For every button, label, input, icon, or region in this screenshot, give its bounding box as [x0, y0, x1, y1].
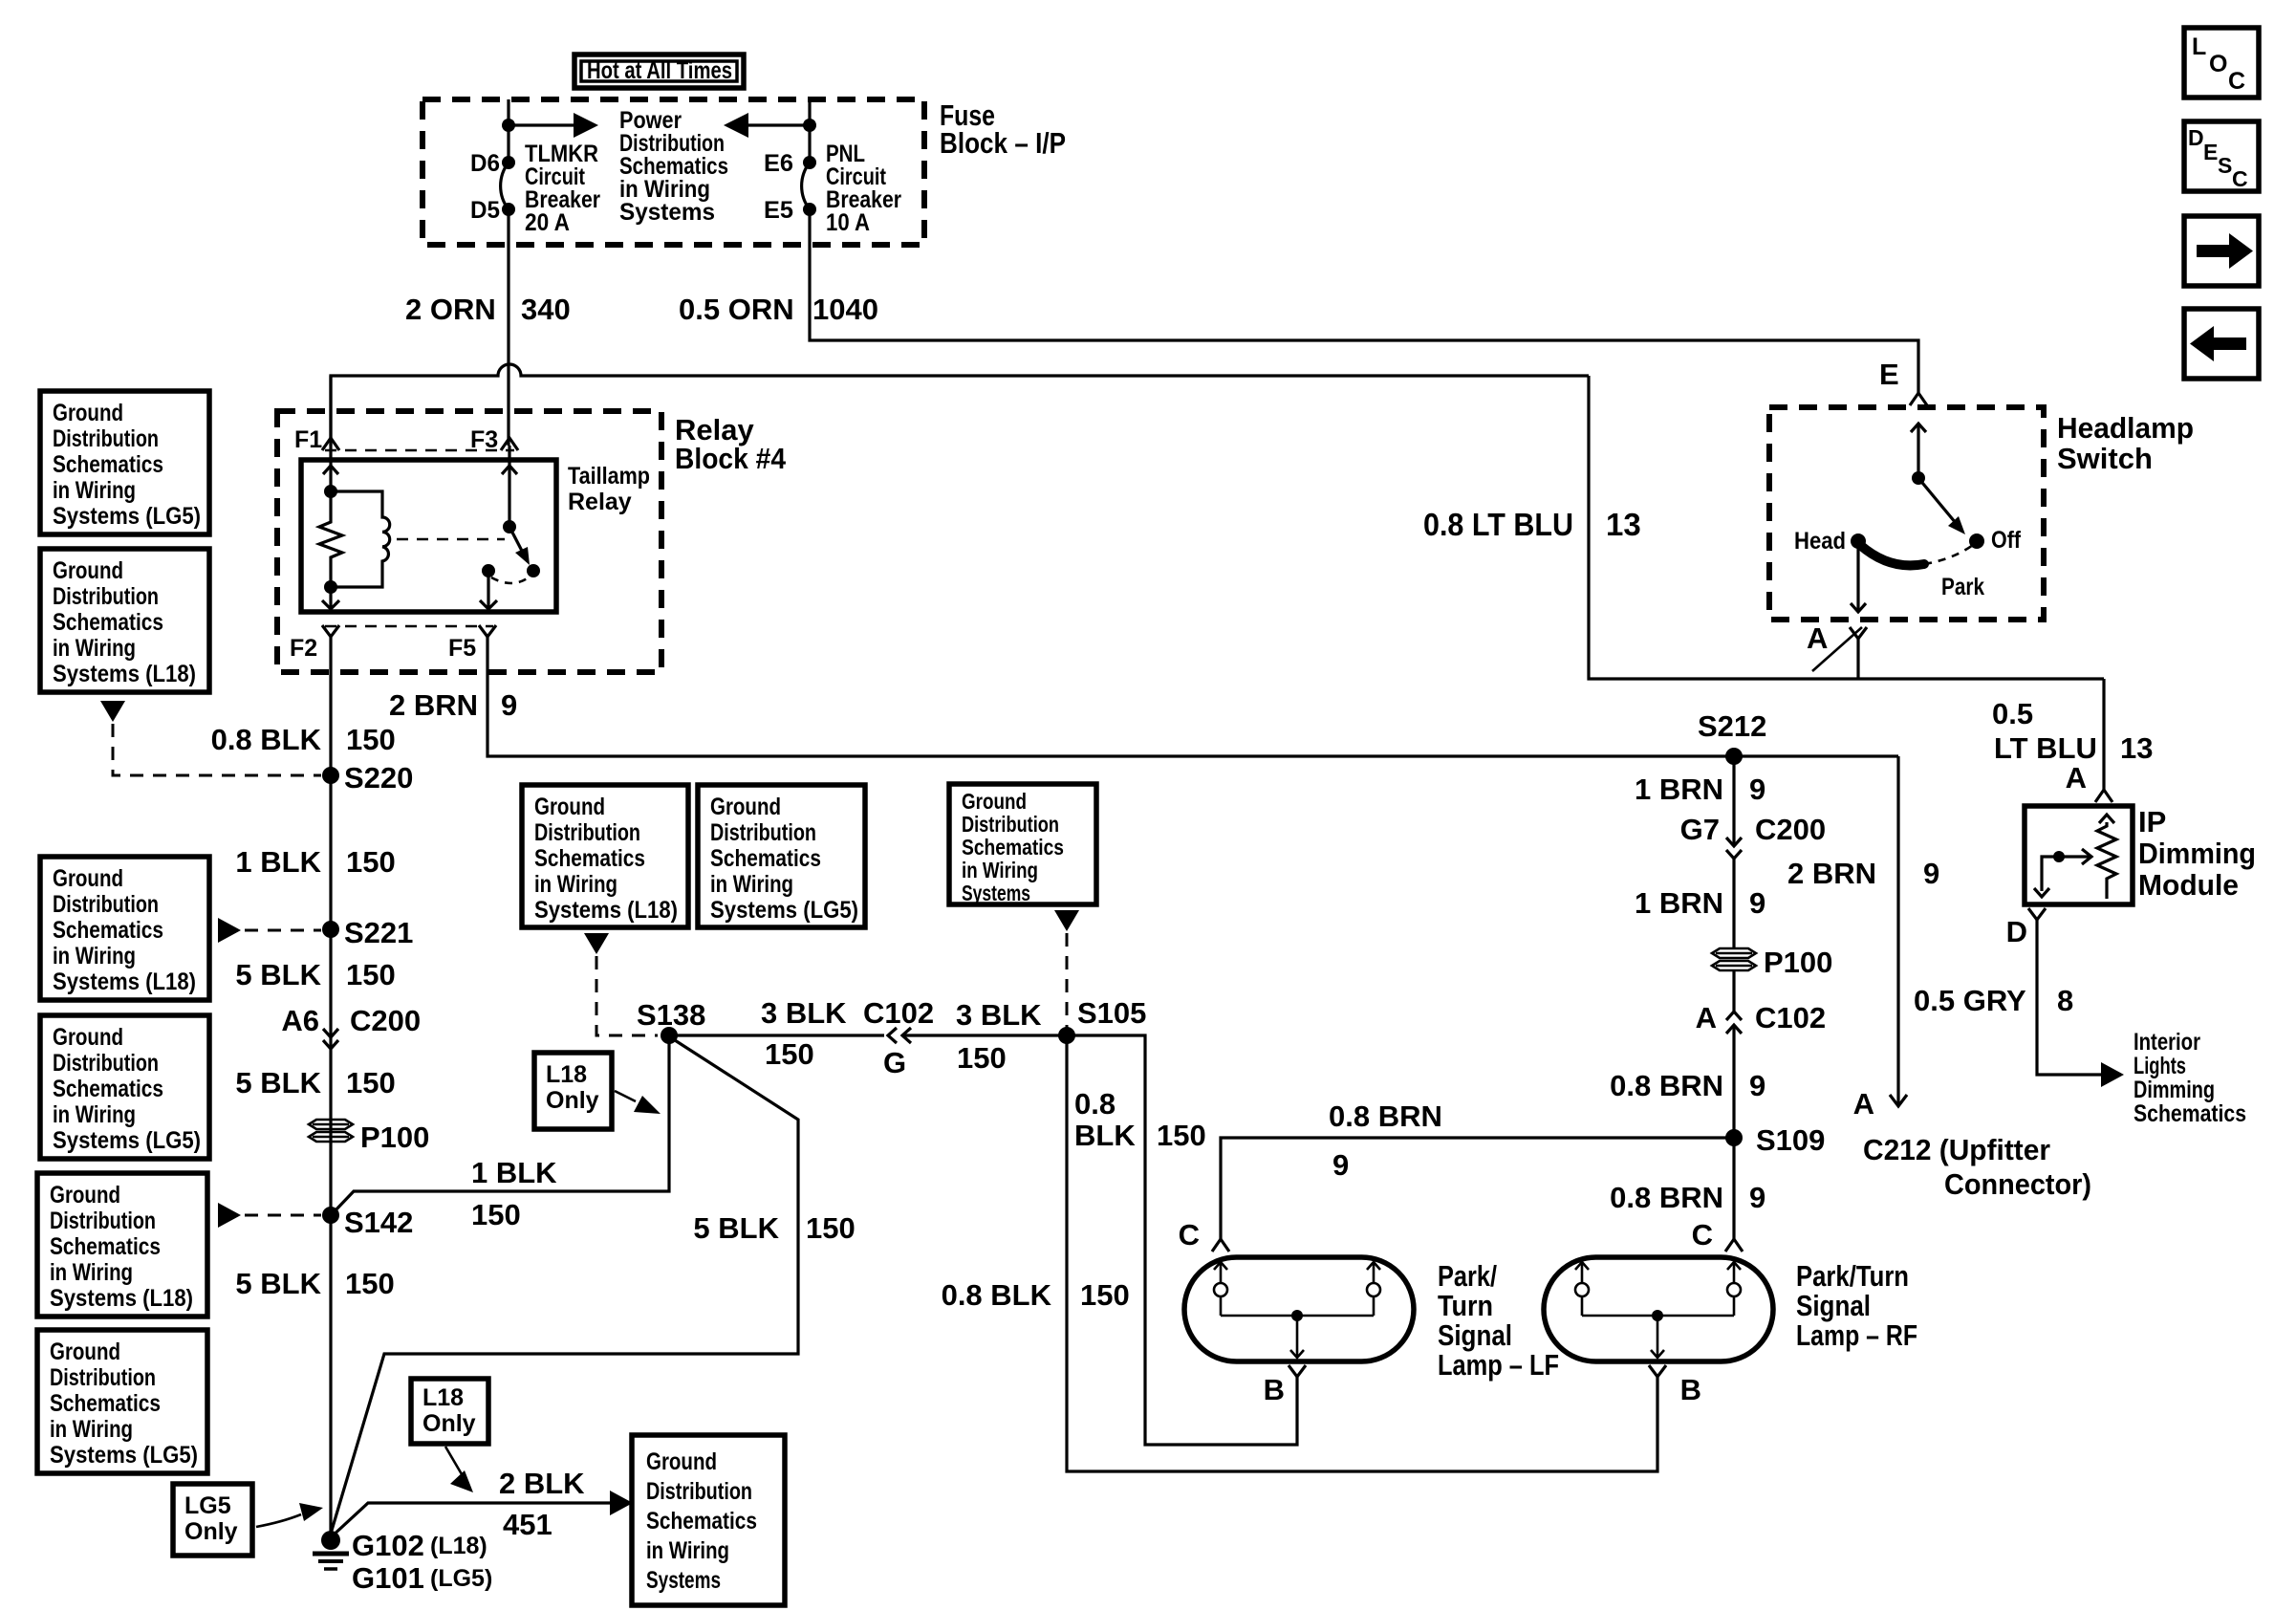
svg-text:2 ORN: 2 ORN	[405, 293, 496, 326]
svg-text:Ground: Ground	[53, 557, 123, 584]
legend box LOC	[2184, 28, 2259, 98]
svg-text:in Wiring: in Wiring	[962, 858, 1038, 882]
wire 1 BLK 150 (S142 to S138 leg)	[334, 1035, 669, 1212]
svg-text:Schematics: Schematics	[53, 451, 163, 478]
svg-text:10 A: 10 A	[826, 209, 870, 236]
svg-text:3 BLK: 3 BLK	[956, 998, 1042, 1032]
svg-text:9: 9	[1749, 773, 1765, 806]
svg-text:Distribution: Distribution	[50, 1208, 156, 1234]
svg-text:Headlamp: Headlamp	[2057, 411, 2194, 445]
svg-text:Systems (LG5): Systems (LG5)	[710, 897, 858, 924]
svg-text:Schematics: Schematics	[50, 1233, 161, 1260]
svg-text:13: 13	[2120, 731, 2153, 765]
svg-text:1 BRN: 1 BRN	[1635, 886, 1723, 920]
svg-text:L18: L18	[546, 1061, 587, 1088]
wire 0.5 ORN 1040 (E5 to headlamp switch E)	[810, 209, 1918, 393]
dashed link coil to switch	[397, 538, 505, 541]
svg-text:150: 150	[345, 1267, 395, 1300]
svg-text:Distribution: Distribution	[50, 1364, 156, 1391]
svg-text:3 BLK: 3 BLK	[761, 996, 847, 1030]
taillamp relay box	[301, 460, 556, 612]
svg-text:L18: L18	[422, 1384, 464, 1411]
wire 0.8 LT BLU 13 (down to headlamp A junction)	[1589, 376, 2104, 679]
dashed reference to S138	[584, 933, 609, 954]
svg-text:C200: C200	[1755, 813, 1826, 846]
wire 3 BLK 150 (C102 to S105)	[902, 1034, 1067, 1036]
wire hot feed to relay (F1 horizontal) with hop over 2 ORN wire	[331, 364, 1589, 446]
node S221	[322, 921, 339, 938]
svg-text:150: 150	[1157, 1119, 1206, 1152]
svg-text:1 BLK: 1 BLK	[235, 845, 321, 879]
svg-text:Systems (L18): Systems (L18)	[53, 969, 196, 995]
svg-text:Relay: Relay	[568, 489, 632, 515]
svg-text:Switch: Switch	[2057, 442, 2153, 475]
thin dashed line F2-F5	[325, 625, 493, 628]
connector C102 (G)	[863, 996, 934, 1079]
svg-text:C: C	[1692, 1218, 1713, 1252]
legend right-arrow box	[2184, 216, 2259, 286]
svg-text:Schematics: Schematics	[710, 845, 821, 872]
resistor (relay)	[319, 491, 342, 587]
connector G7 C200	[1680, 813, 1826, 859]
relay switch arm	[503, 520, 516, 533]
arrow LG5 Only to ground	[256, 1514, 301, 1527]
svg-text:D: D	[2188, 125, 2204, 150]
park/turn signal lamp RF	[1544, 1257, 1773, 1361]
svg-text:Turn: Turn	[1438, 1289, 1493, 1322]
svg-text:Connector): Connector)	[1944, 1167, 2091, 1201]
ground G102(L18) G101(LG5)	[313, 1529, 492, 1595]
wire F1 into coil	[329, 376, 332, 491]
park/turn signal lamp LF	[1184, 1257, 1414, 1361]
svg-text:5 BLK: 5 BLK	[235, 1267, 321, 1300]
dashed reference to S221	[218, 918, 241, 943]
node S212	[1725, 748, 1743, 765]
svg-text:(L18): (L18)	[430, 1533, 487, 1559]
legend box DESC	[2184, 121, 2259, 191]
thin dashed line F1-F3	[325, 449, 514, 452]
svg-text:150: 150	[346, 845, 396, 879]
svg-text:Park/: Park/	[1438, 1259, 1497, 1293]
potentiometer (IP dimming)	[2097, 822, 2116, 899]
arrow to Power Distribution (left)	[747, 123, 810, 126]
svg-text:S142: S142	[344, 1206, 413, 1239]
svg-text:13: 13	[1606, 507, 1641, 542]
terminal B (left lamp)	[1289, 1365, 1306, 1377]
svg-text:Systems: Systems	[646, 1567, 721, 1594]
svg-text:Lamp – LF: Lamp – LF	[1438, 1348, 1559, 1382]
wire 0.8 BRN 9 (S109 to left lamp C)	[1221, 1138, 1734, 1239]
svg-text:9: 9	[1749, 1181, 1765, 1214]
svg-text:2 BLK: 2 BLK	[499, 1467, 585, 1500]
arrow to Power Distribution (right)	[509, 123, 575, 126]
ground dist box (above S105)	[949, 784, 1096, 905]
arrow L18 Only to S138 wire	[615, 1091, 636, 1101]
svg-text:1 BLK: 1 BLK	[471, 1156, 557, 1189]
svg-text:Dimming: Dimming	[2134, 1077, 2215, 1103]
wire 0.5 LT BLU 13 to IP dimming module	[2102, 679, 2105, 790]
relay coil L	[331, 491, 390, 587]
svg-text:8: 8	[2057, 984, 2073, 1017]
svg-text:B: B	[1264, 1373, 1285, 1406]
svg-text:1 BRN: 1 BRN	[1635, 773, 1723, 806]
connector A6 C200	[281, 1004, 421, 1049]
connector A C102 (right)	[1696, 1001, 1827, 1034]
svg-text:Module: Module	[2138, 868, 2239, 902]
svg-text:Schematics: Schematics	[50, 1390, 161, 1417]
svg-text:D5: D5	[470, 197, 500, 224]
wire 2 ORN 340 (D5 to relay F3)	[507, 209, 509, 446]
terminal B (right lamp)	[1649, 1365, 1666, 1377]
svg-text:G101: G101	[352, 1561, 424, 1595]
legend left-arrow box	[2184, 309, 2259, 379]
svg-text:Ground: Ground	[53, 1024, 123, 1051]
arrow L18 Only to 2 BLK wire	[445, 1447, 462, 1474]
svg-text:Ground: Ground	[53, 400, 123, 426]
svg-text:150: 150	[765, 1037, 814, 1071]
svg-text:Systems: Systems	[619, 199, 715, 226]
svg-text:0.8 BRN: 0.8 BRN	[1610, 1069, 1723, 1102]
svg-text:(LG5): (LG5)	[430, 1565, 492, 1592]
svg-text:5 BLK: 5 BLK	[693, 1211, 779, 1245]
relay block #4 dashed box	[277, 411, 661, 672]
svg-text:S105: S105	[1077, 996, 1146, 1030]
headlamp switch dashed box	[1769, 407, 2044, 620]
svg-text:Distribution: Distribution	[534, 819, 640, 846]
svg-text:0.8 LT BLU: 0.8 LT BLU	[1423, 507, 1573, 542]
svg-text:Distribution: Distribution	[53, 1050, 159, 1077]
svg-text:Schematics: Schematics	[53, 917, 163, 944]
ground dist box (bottom)	[632, 1435, 785, 1605]
svg-text:Lights: Lights	[2134, 1053, 2186, 1079]
svg-text:Only: Only	[184, 1518, 238, 1545]
ground dist box L18 (middle)	[522, 785, 688, 927]
svg-text:Schematics: Schematics	[2134, 1100, 2246, 1127]
relay switch contact dot	[527, 564, 540, 577]
ground dist box LG5 (sixth left)	[37, 1330, 207, 1473]
node S105	[1058, 1027, 1075, 1044]
terminal F5	[479, 625, 496, 637]
svg-text:Hot at All Times: Hot at All Times	[587, 57, 732, 84]
svg-text:C: C	[2232, 166, 2248, 191]
svg-text:150: 150	[346, 958, 396, 991]
svg-text:S109: S109	[1756, 1123, 1825, 1157]
svg-text:Systems (L18): Systems (L18)	[53, 661, 196, 687]
slash mark at A wire	[1812, 627, 1862, 671]
svg-text:Ground: Ground	[962, 789, 1027, 814]
svg-text:E6: E6	[764, 150, 793, 177]
terminal C (left lamp)	[1212, 1239, 1229, 1252]
svg-text:150: 150	[346, 1066, 396, 1099]
node S109	[1725, 1129, 1743, 1146]
svg-text:S221: S221	[344, 916, 413, 949]
svg-text:LG5: LG5	[184, 1492, 231, 1519]
svg-text:2 BRN: 2 BRN	[1787, 857, 1876, 890]
svg-text:IP: IP	[2138, 805, 2166, 838]
svg-text:Distribution: Distribution	[710, 819, 816, 846]
svg-text:Schematics: Schematics	[53, 609, 163, 636]
svg-text:F5: F5	[448, 635, 476, 662]
terminal E	[1910, 393, 1927, 405]
ground dist box LG5 (top left)	[40, 391, 209, 534]
node S138	[661, 1027, 678, 1044]
svg-text:F3: F3	[470, 426, 498, 453]
grommet P100 (right)	[1712, 946, 1832, 979]
svg-text:in Wiring: in Wiring	[534, 871, 617, 898]
L18 Only box (at S138)	[534, 1053, 612, 1129]
svg-text:A: A	[1853, 1087, 1874, 1121]
svg-text:0.8 BLK: 0.8 BLK	[942, 1278, 1052, 1312]
svg-text:P100: P100	[360, 1121, 429, 1154]
svg-text:5 BLK: 5 BLK	[235, 1066, 321, 1099]
svg-text:B: B	[1680, 1373, 1701, 1406]
svg-text:Systems (L18): Systems (L18)	[50, 1285, 193, 1312]
svg-text:9: 9	[501, 688, 517, 722]
svg-text:C102: C102	[1755, 1001, 1826, 1034]
svg-text:C: C	[1179, 1218, 1200, 1252]
svg-text:S: S	[2218, 153, 2232, 178]
svg-text:G102: G102	[352, 1529, 424, 1562]
svg-text:0.8 BLK: 0.8 BLK	[211, 723, 322, 756]
wire S105 right branch to left lamp B	[1067, 1035, 1297, 1445]
ground dist box L18 (fifth left)	[37, 1173, 207, 1317]
svg-text:S212: S212	[1698, 709, 1766, 743]
svg-text:150: 150	[346, 723, 396, 756]
terminal A (IP dimming module)	[2095, 790, 2112, 802]
svg-text:in Wiring: in Wiring	[50, 1416, 133, 1443]
svg-text:9: 9	[1749, 886, 1765, 920]
wire F3 into switch	[508, 446, 510, 527]
wire Head contact to A	[1856, 545, 1859, 612]
svg-text:Schematics: Schematics	[962, 835, 1064, 860]
svg-text:Signal: Signal	[1438, 1318, 1512, 1352]
svg-text:Block – I/P: Block – I/P	[940, 126, 1066, 160]
ground dist box LG5 (fourth left)	[40, 1015, 209, 1159]
dashed travel arc (relay switch)	[491, 577, 529, 583]
svg-text:P100: P100	[1764, 946, 1832, 979]
svg-text:in Wiring: in Wiring	[710, 871, 793, 898]
svg-text:C102: C102	[863, 996, 934, 1030]
contact Head	[1851, 533, 1866, 549]
svg-text:Signal: Signal	[1796, 1289, 1871, 1322]
wire 0.8 BRN 9 (S109 to right lamp C)	[1732, 1138, 1735, 1239]
circuit breaker PNL 10A (E6-E5)	[803, 156, 816, 169]
terminal D (IP dimming module)	[2028, 908, 2046, 920]
svg-text:Park/Turn: Park/Turn	[1796, 1259, 1909, 1293]
svg-text:F2: F2	[290, 635, 317, 662]
svg-text:S220: S220	[344, 761, 413, 795]
grommet P100 (left)	[309, 1120, 429, 1154]
wire F5 2 BRN 9 to S212	[487, 637, 1898, 756]
svg-text:Ground: Ground	[50, 1182, 120, 1208]
svg-text:A: A	[1696, 1001, 1717, 1034]
svg-text:Lamp – RF: Lamp – RF	[1796, 1318, 1917, 1352]
wire common to F5	[487, 571, 489, 612]
svg-text:0.8 BRN: 0.8 BRN	[1610, 1181, 1723, 1214]
relay switch common dot	[482, 564, 495, 577]
svg-text:Interior: Interior	[2134, 1029, 2200, 1056]
circuit breaker TLMKR 20A (D6-D5)	[502, 156, 515, 169]
svg-text:9: 9	[1923, 857, 1939, 890]
svg-text:Systems (LG5): Systems (LG5)	[53, 1127, 201, 1154]
svg-text:2 BRN: 2 BRN	[389, 688, 478, 722]
wire 1 BRN 9 (C200 to P100)	[1732, 859, 1735, 948]
svg-text:S138: S138	[637, 998, 705, 1032]
svg-text:L: L	[2192, 33, 2206, 60]
svg-text:A: A	[2066, 761, 2087, 795]
svg-text:Head: Head	[1794, 528, 1846, 555]
svg-text:Only: Only	[422, 1410, 476, 1437]
node S142	[322, 1207, 339, 1224]
svg-text:451: 451	[503, 1508, 552, 1541]
svg-text:Ground: Ground	[534, 794, 605, 820]
svg-text:150: 150	[471, 1198, 521, 1231]
svg-text:20 A: 20 A	[525, 209, 570, 236]
svg-text:0.5 ORN: 0.5 ORN	[679, 293, 794, 326]
terminal C (right lamp)	[1725, 1239, 1743, 1252]
wire 0.8 BRN 9 (C102 to S109)	[1732, 1025, 1735, 1138]
svg-text:Ground: Ground	[50, 1339, 120, 1365]
svg-text:in Wiring: in Wiring	[646, 1537, 729, 1564]
ground dist box L18 (second left)	[40, 549, 209, 692]
svg-text:340: 340	[521, 293, 571, 326]
svg-text:Systems: Systems	[962, 881, 1030, 905]
svg-text:0.8: 0.8	[1074, 1087, 1116, 1121]
svg-text:Park: Park	[1941, 574, 1984, 600]
svg-text:in Wiring: in Wiring	[50, 1259, 133, 1286]
svg-text:0.8 BRN: 0.8 BRN	[1329, 1099, 1442, 1133]
svg-text:O: O	[2209, 51, 2227, 77]
svg-text:Systems (L18): Systems (L18)	[534, 897, 678, 924]
terminal A (C212)	[1890, 1095, 1907, 1106]
svg-text:C200: C200	[350, 1004, 421, 1037]
svg-text:C212 (Upfitter: C212 (Upfitter	[1863, 1133, 2050, 1166]
fuse block I/P dashed box	[422, 99, 924, 245]
wire coil to F2	[329, 587, 332, 612]
thick arc Head-Park	[1860, 545, 1924, 565]
wire 2 BRN 9 (S212 to C212 upfitter)	[1896, 756, 1899, 1106]
wire S105 down branch to right lamp B	[1067, 1035, 1657, 1471]
svg-text:Ground: Ground	[53, 865, 123, 892]
wiper arrow (IP dimming)	[2042, 857, 2090, 891]
relay coil node bottom	[324, 580, 337, 594]
svg-text:0.5 GRY: 0.5 GRY	[1914, 984, 2026, 1017]
svg-text:150: 150	[957, 1041, 1007, 1075]
LG5 Only box	[173, 1484, 252, 1556]
svg-text:Distribution: Distribution	[53, 583, 159, 610]
svg-text:Systems (LG5): Systems (LG5)	[50, 1442, 198, 1469]
svg-text:Only: Only	[546, 1087, 599, 1114]
svg-text:D6: D6	[470, 150, 500, 177]
svg-text:Schematics: Schematics	[534, 845, 645, 872]
wire 1 BRN 9 (S212 to C200)	[1732, 756, 1735, 846]
dashed arc Park-Off	[1924, 545, 1973, 564]
ground dist box LG5 (middle)	[698, 785, 865, 927]
wire 3 BLK 150 (S138 to C102)	[669, 1034, 884, 1036]
wire P100 to C102	[1732, 970, 1735, 1012]
svg-text:Ground: Ground	[710, 794, 781, 820]
svg-text:Schematics: Schematics	[53, 1076, 163, 1102]
svg-text:Block #4: Block #4	[675, 442, 787, 475]
svg-text:150: 150	[1080, 1278, 1130, 1312]
wire 5 BLK 150 (S138 to ground)	[331, 1040, 798, 1534]
dashed reference to S142	[218, 1203, 241, 1228]
svg-text:Distribution: Distribution	[53, 891, 159, 918]
dashed reference to S105	[1054, 910, 1079, 931]
svg-text:Taillamp: Taillamp	[568, 463, 650, 490]
terminal F3	[501, 438, 518, 450]
svg-text:Off: Off	[1991, 527, 2022, 554]
terminal F1	[322, 438, 339, 450]
svg-text:1040: 1040	[812, 293, 878, 326]
IP dimming module box	[2025, 806, 2133, 904]
svg-text:9: 9	[1332, 1148, 1349, 1182]
node S220	[322, 767, 339, 784]
dashed reference to S220	[100, 701, 125, 722]
svg-text:LT BLU: LT BLU	[1994, 731, 2097, 765]
svg-text:Ground: Ground	[646, 1448, 717, 1475]
relay coil node top	[324, 485, 337, 498]
svg-text:Schematics: Schematics	[646, 1508, 757, 1535]
svg-text:in Wiring: in Wiring	[53, 943, 136, 969]
svg-text:150: 150	[806, 1211, 856, 1245]
svg-text:in Wiring: in Wiring	[53, 1101, 136, 1128]
svg-text:Distribution: Distribution	[646, 1478, 752, 1505]
svg-text:Distribution: Distribution	[962, 812, 1059, 837]
terminal A (headlamp switch)	[1850, 627, 1867, 639]
svg-text:E5: E5	[764, 197, 793, 224]
ground dist box L18 (third left)	[40, 857, 209, 1000]
svg-text:Dimming: Dimming	[2138, 837, 2256, 870]
svg-text:A6: A6	[281, 1004, 319, 1037]
L18 Only box (bottom)	[411, 1379, 488, 1444]
svg-text:BLK: BLK	[1074, 1119, 1136, 1152]
svg-text:in Wiring: in Wiring	[53, 635, 136, 662]
svg-text:9: 9	[1749, 1069, 1765, 1102]
wire A to junction	[1856, 639, 1859, 679]
node junction TLMKR	[502, 119, 515, 132]
contact Off	[1969, 533, 1984, 549]
svg-text:Distribution: Distribution	[53, 425, 159, 452]
Hot at All Times banner	[574, 54, 744, 88]
svg-text:5 BLK: 5 BLK	[235, 958, 321, 991]
svg-text:E: E	[1879, 358, 1899, 391]
svg-text:0.5: 0.5	[1992, 697, 2033, 730]
wire 0.5 GRY 8	[2037, 920, 2103, 1075]
wire TLMKR feed top	[507, 99, 509, 163]
svg-text:F1: F1	[294, 426, 322, 453]
wire F2 0.8 BLK 150	[329, 637, 332, 1537]
terminal F2	[322, 625, 339, 637]
svg-text:D: D	[2006, 915, 2027, 948]
wire PNL feed top	[808, 99, 811, 163]
svg-text:C: C	[2228, 68, 2245, 95]
svg-text:in Wiring: in Wiring	[53, 477, 136, 504]
svg-text:G: G	[883, 1046, 906, 1079]
svg-text:Systems (LG5): Systems (LG5)	[53, 503, 201, 530]
wire 2 BLK 451 (ground to box)	[331, 1503, 612, 1537]
node junction PNL	[803, 119, 816, 132]
headlamp switch arm from E	[1917, 424, 1919, 478]
svg-text:A: A	[1807, 621, 1828, 655]
svg-text:G7: G7	[1680, 813, 1720, 846]
svg-text:E: E	[2203, 140, 2218, 164]
